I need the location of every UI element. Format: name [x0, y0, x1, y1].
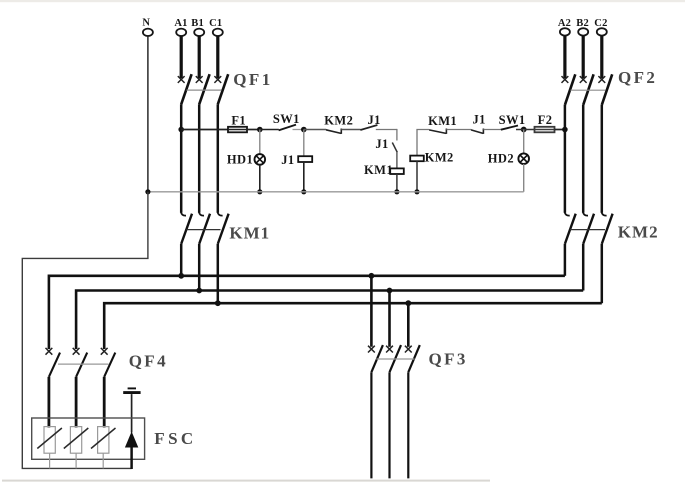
wire control feed left — [181, 129, 228, 131]
svg-text:B2: B2 — [576, 18, 589, 29]
varistor RV2 — [64, 427, 89, 454]
junction N rail — [145, 189, 150, 194]
svg-text:QF4: QF4 — [129, 351, 168, 370]
wire QF1 output phase C — [217, 104, 220, 213]
svg-text:QF3: QF3 — [429, 350, 468, 369]
wire A2 stem — [563, 36, 566, 78]
wire node to KM2 contact — [304, 129, 326, 131]
wire F1 to node — [247, 129, 260, 131]
svg-text:F1: F1 — [231, 113, 246, 127]
lamp HD1 — [227, 152, 265, 166]
arrester discharge arrow — [125, 432, 138, 470]
wire to SW1 — [260, 129, 279, 131]
wire ground to arrester — [131, 394, 133, 432]
wire N return elbow — [22, 192, 148, 469]
wire J1 contact to SW1 right — [483, 129, 501, 131]
wire SW1 to node — [293, 129, 304, 131]
breaker QF1 — [178, 70, 273, 104]
wire control return rail — [148, 191, 524, 193]
contact J1 left — [360, 113, 380, 130]
scan artifact bottom edge — [2, 480, 490, 482]
wire varistor RV2 stub — [75, 453, 77, 468]
wire QF2 output phase A — [564, 105, 567, 213]
wire varistor RV3 stub — [102, 453, 104, 468]
varistor RV1 — [37, 427, 62, 454]
terminal B1 — [191, 18, 204, 36]
terminal A1 — [174, 18, 187, 36]
breaker QF2 — [562, 68, 658, 105]
bus phase C — [104, 303, 602, 349]
svg-text:SW1: SW1 — [499, 113, 526, 127]
svg-text:N: N — [142, 17, 150, 28]
wire B1 stem — [198, 36, 201, 78]
breaker QF4 — [46, 348, 169, 377]
wire KM2 contact to J1 contact — [341, 129, 360, 131]
terminal C1 — [209, 18, 223, 36]
wire node to F2 — [516, 129, 535, 131]
wire QF1 output phase B — [198, 104, 201, 213]
wire QF2 output phase B — [582, 105, 585, 213]
contact J1 normally-closed right — [471, 112, 486, 134]
wire QF4 out C — [103, 377, 106, 428]
svg-text:KM1: KM1 — [229, 223, 270, 242]
wire A1 stem — [180, 36, 183, 78]
wire KM2 out A — [564, 244, 567, 276]
contactor KM1 — [181, 212, 270, 244]
svg-text:FSC: FSC — [154, 429, 196, 448]
wire C2 stem — [600, 36, 603, 78]
coil KM1 — [364, 163, 404, 177]
junction KM1 B bus — [196, 288, 202, 294]
wire HD2 to rail corner — [523, 164, 525, 192]
wire varistor RV1 stub — [49, 453, 51, 468]
svg-text:KM2: KM2 — [618, 222, 659, 241]
breaker QF3 — [368, 345, 468, 372]
svg-text:B1: B1 — [191, 18, 204, 29]
wire QF3 out B — [388, 372, 390, 478]
svg-text:F2: F2 — [538, 113, 553, 127]
svg-text:J1: J1 — [472, 112, 485, 126]
contact KM2 normally-closed — [324, 114, 353, 134]
svg-text:C2: C2 — [594, 18, 607, 29]
svg-text:A2: A2 — [558, 18, 571, 29]
wire J1 coil branch upper — [303, 130, 305, 157]
wire QF3 out A — [370, 372, 372, 478]
wire QF3 feed A — [370, 276, 373, 347]
terminal C2 — [594, 18, 607, 36]
scan artifact top edge — [0, 0, 685, 2]
wire QF4 out B — [75, 377, 78, 428]
fuse F2 — [535, 113, 555, 132]
surge protector FSC box — [32, 418, 145, 459]
wire KM1 out A — [180, 244, 183, 276]
wire KM2 out B — [582, 244, 585, 291]
wire KM2 coil to rail — [416, 161, 418, 192]
junction J1 coil rail — [301, 189, 306, 194]
wire HD2 branch upper — [523, 130, 525, 154]
bus phase A — [49, 276, 565, 349]
junction QF3 tap C — [405, 300, 411, 306]
svg-text:J1: J1 — [281, 153, 294, 167]
svg-text:J1: J1 — [368, 113, 381, 127]
junction control tap on QF1 phase A — [178, 127, 184, 133]
svg-text:A1: A1 — [174, 18, 187, 29]
wire J1 coil to rail — [303, 162, 305, 192]
junction control tap on QF2 phase A — [562, 127, 568, 133]
wire QF3 feed B — [388, 291, 391, 347]
wire QF3 out C — [407, 372, 409, 478]
ground earth symbol — [123, 388, 140, 392]
wire KM1 out C — [217, 244, 220, 303]
bus phase B — [76, 291, 583, 350]
wire B2 stem — [582, 36, 585, 78]
wire coil KM1 to rail — [396, 174, 398, 192]
svg-text:KM2: KM2 — [425, 150, 454, 164]
switch SW1 — [273, 112, 300, 130]
svg-text:KM1: KM1 — [364, 163, 393, 177]
coil J1 — [281, 153, 312, 167]
wire corner down to J1 aux contact — [396, 129, 398, 141]
svg-text:QF1: QF1 — [233, 70, 272, 89]
wire HD1 branch upper — [259, 130, 261, 155]
wire C1 stem — [216, 36, 219, 78]
coil KM2 — [410, 150, 453, 164]
node J1 coil branch junction — [301, 127, 307, 133]
wire QF3 feed C — [407, 303, 410, 347]
wire KM2 coil branch corner — [417, 130, 429, 156]
wire KM2 out C — [601, 244, 604, 303]
wire N vertical drop — [147, 36, 149, 192]
terminal N — [142, 17, 152, 36]
wire QF4 out A — [48, 377, 51, 428]
svg-text:HD2: HD2 — [488, 152, 514, 166]
switch SW1 right — [499, 113, 526, 130]
svg-text:QF2: QF2 — [618, 68, 657, 87]
wire HD1 to rail — [259, 165, 261, 192]
wire KM1 contact to J1 contact right — [446, 129, 471, 131]
junction coil KM1 rail — [394, 189, 399, 194]
contactor KM2 — [565, 212, 659, 244]
svg-text:KM2: KM2 — [324, 114, 353, 128]
junction QF3 tap B — [387, 288, 393, 294]
varistor RV3 — [91, 427, 116, 454]
contact J1 vertical normally-open — [375, 137, 397, 152]
junction QF3 tap A — [369, 273, 375, 279]
svg-text:HD1: HD1 — [227, 152, 253, 166]
lamp HD2 — [488, 152, 529, 166]
terminal A2 — [558, 18, 571, 36]
junction KM1 A bus — [178, 273, 184, 279]
fuse F1 — [228, 113, 247, 132]
junction KM1 C bus — [215, 300, 221, 306]
node HD1 branch junction — [257, 127, 263, 133]
svg-text:C1: C1 — [209, 18, 222, 29]
wire QF1 output phase A — [180, 104, 183, 213]
junction HD1 rail — [257, 189, 262, 194]
wire J1 aux to coil KM1 — [396, 152, 398, 168]
terminal B2 — [576, 18, 589, 36]
wire QF2 output phase C — [601, 105, 604, 213]
contact KM1 normally-closed right — [428, 114, 457, 134]
wire KM1 out B — [198, 244, 201, 291]
junction KM2 coil rail — [414, 189, 419, 194]
wire F2 to QF2 phase A — [555, 129, 565, 131]
wire J1 contact to corner — [376, 129, 397, 131]
svg-text:SW1: SW1 — [273, 112, 300, 126]
svg-text:KM1: KM1 — [428, 114, 457, 128]
node HD2 branch junction — [521, 127, 527, 133]
svg-text:J1: J1 — [375, 137, 388, 151]
